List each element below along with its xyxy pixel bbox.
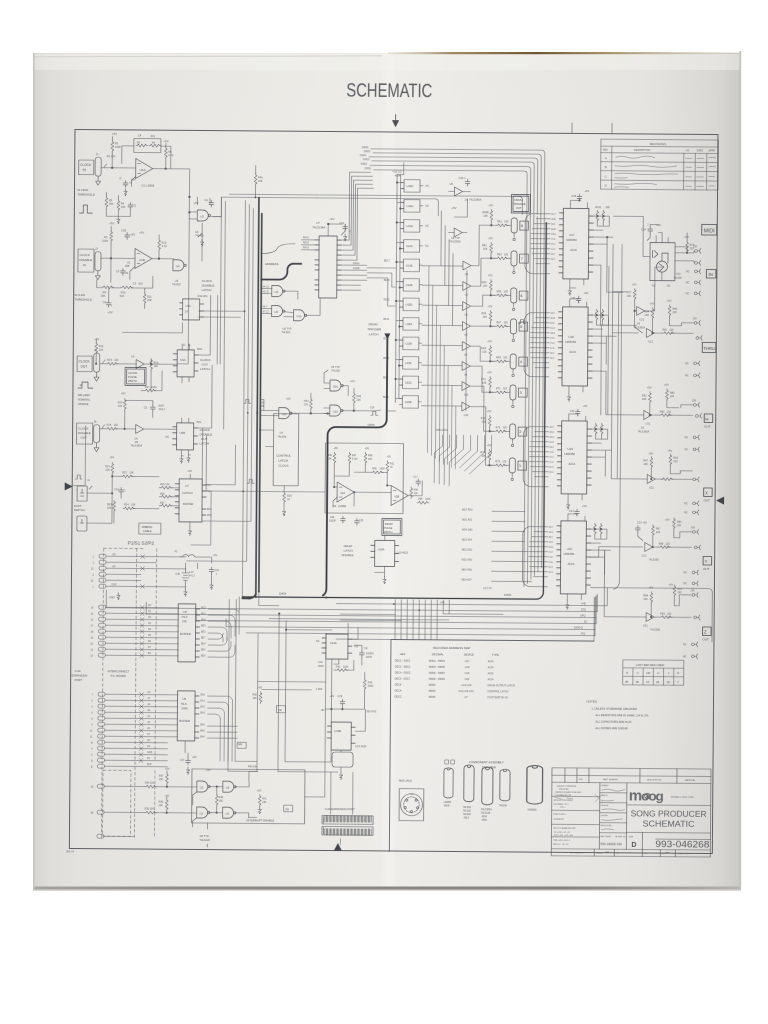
svg-text:U15D: U15D: [406, 303, 413, 307]
wire: pair from gate U2 to right bus: [211, 194, 522, 219]
svg-text:P/N: P/N: [579, 779, 583, 781]
svg-text:U21: U21: [649, 487, 654, 490]
svg-text:R1: R1: [115, 141, 119, 145]
bus bracket U19: [523, 427, 548, 487]
svg-text:100: 100: [503, 321, 508, 324]
svg-text:R56: R56: [418, 498, 423, 501]
svg-text:MODEL NO: MODEL NO: [615, 836, 626, 838]
svg-text:U: U: [657, 671, 659, 675]
svg-text:U15B: U15B: [405, 400, 412, 404]
svg-text:+5V: +5V: [487, 370, 492, 374]
svg-text:+5V: +5V: [258, 686, 263, 689]
svg-text:10K: 10K: [656, 531, 661, 534]
svg-text:+5V: +5V: [165, 795, 170, 798]
svg-text:NC: NC: [685, 362, 689, 365]
svg-text:BA5: BA5: [200, 730, 205, 733]
svg-text:CR: CR: [646, 671, 650, 675]
svg-text:74LS365: 74LS365: [649, 559, 660, 562]
svg-text:1/6 TYP: 1/6 TYP: [199, 834, 209, 838]
svg-text:A6 7: A6 7: [263, 305, 268, 308]
wire: control latch clock feed: [260, 430, 274, 447]
svg-text:IN 9.201: IN 9.201: [75, 293, 86, 297]
svg-text:4013: 4013: [464, 817, 470, 820]
svg-text:R18: R18: [107, 424, 112, 427]
svg-text:100: 100: [504, 253, 509, 256]
svg-text:R50: R50: [372, 467, 377, 470]
svg-text:U12 1/2: U12 1/2: [393, 169, 403, 173]
svg-text:CLOCK: CLOCK: [278, 464, 288, 468]
svg-text:MATERIAL: MATERIAL: [685, 779, 696, 782]
wire: extra input network R3 C2: [105, 196, 108, 208]
svg-text:U13B: U13B: [334, 729, 341, 733]
clock pulse width box: [125, 367, 146, 385]
drum trigger latch column U14 x12: [399, 180, 423, 409]
svg-text:D: D: [631, 842, 636, 849]
svg-text:MD3 AD4: MD3 AD4: [462, 539, 473, 542]
svg-text:WIDTH: WIDTH: [384, 530, 393, 534]
svg-text:C8: C8: [103, 300, 107, 304]
svg-text:74LS365A: 74LS365A: [130, 444, 142, 447]
svg-text:C22 J: C22 J: [459, 176, 467, 180]
svg-text:LATCH: LATCH: [200, 441, 210, 445]
svg-text:BD2: BD2: [201, 608, 206, 610]
svg-text:22K: 22K: [356, 399, 361, 402]
svg-text:DATE: DATE: [697, 149, 704, 152]
opamp V2a: [337, 482, 354, 502]
svg-text:U20: U20: [567, 547, 573, 551]
extra bottom-left pins: [97, 834, 104, 838]
svg-text:EXPANSION: EXPANSION: [72, 673, 88, 677]
interrupt gates: [197, 781, 210, 792]
GND sym below pins: [116, 592, 120, 599]
svg-text:R2 10K: R2 10K: [107, 154, 116, 158]
svg-text:C10: C10: [114, 488, 119, 491]
svg-text:+5V: +5V: [648, 586, 653, 590]
svg-text:DRD3: DRD3: [363, 158, 370, 161]
drum audio section box: [325, 443, 404, 514]
svg-text:220: 220: [666, 543, 671, 546]
svg-text:10K: 10K: [483, 285, 488, 288]
svg-text:22K: 22K: [304, 403, 309, 406]
wire: left column feed lines: [73, 258, 213, 545]
op-amp U1B: [135, 248, 152, 268]
svg-text:LATCH: LATCH: [202, 288, 212, 292]
svg-text:NC: NC: [684, 502, 688, 505]
revisions table: [601, 139, 719, 190]
resistors R44 R45: [309, 398, 312, 410]
svg-text:SURFACES: SURFACES: [554, 818, 565, 821]
svg-text:+5V: +5V: [667, 299, 672, 303]
svg-text:BD15: BD15: [384, 299, 390, 301]
thick address bus: [261, 263, 301, 279]
drum pulse width box: [382, 518, 402, 535]
svg-text:C17: C17: [180, 759, 185, 762]
svg-text:10K: 10K: [253, 697, 258, 700]
svg-text:10K: 10K: [121, 206, 126, 209]
svg-text:ACIA: ACIA: [488, 660, 494, 663]
svg-text:+5V: +5V: [488, 203, 493, 207]
svg-text:DE: DE: [278, 709, 282, 712]
svg-text:WIDTH: WIDTH: [128, 379, 137, 383]
svg-text:74LS365A: 74LS365A: [638, 430, 650, 433]
wire: clock disable out row: [100, 425, 177, 430]
moog logo: [629, 788, 664, 804]
pulse glyph foot switch: [75, 475, 82, 479]
resistor R13: [158, 239, 161, 251]
svg-text:M: M: [705, 416, 708, 421]
wire: center bottom mesh: [257, 591, 366, 772]
svg-text:100: 100: [114, 359, 119, 362]
IN label box: [706, 269, 716, 278]
svg-text:U1B: U1B: [139, 258, 145, 262]
svg-text:SONG PRODUCER: SONG PRODUCER: [631, 809, 707, 819]
svg-text:+5V: +5V: [213, 553, 218, 557]
svg-text:+5V: +5V: [112, 566, 117, 568]
wire: clock out row: [95, 339, 177, 365]
svg-text:10K: 10K: [154, 365, 159, 368]
svg-text:U16: U16: [464, 394, 469, 397]
svg-text:500KHZ: 500KHZ: [574, 626, 583, 629]
svg-text:D0D: D0D: [549, 462, 554, 464]
svg-text:U18: U18: [568, 335, 574, 339]
svg-text:R88: R88: [659, 543, 664, 546]
svg-text:R12 401: R12 401: [198, 294, 208, 298]
svg-text:POLY: POLY: [159, 408, 166, 411]
svg-text:74LS366: 74LS366: [650, 629, 661, 632]
svg-text:74LS08: 74LS08: [331, 370, 340, 373]
svg-text:51K: 51K: [120, 294, 125, 298]
middle column scribbles: [601, 784, 613, 827]
svg-text:MD6 PD6: MD6 PD6: [462, 569, 473, 572]
svg-text:DESCRIPTION: DESCRIPTION: [647, 779, 662, 781]
svg-text:DRD4: DRD4: [360, 154, 367, 157]
svg-text:56834 - 56835: 56834 - 56835: [429, 666, 446, 669]
svg-text:ACIA: ACIA: [570, 248, 577, 252]
svg-text:C30: C30: [571, 297, 576, 300]
svg-text:C18: C18: [121, 228, 126, 232]
svg-text:BD3: BD3: [201, 632, 206, 634]
svg-text:NC: NC: [684, 511, 688, 514]
svg-text:CLOCK: CLOCK: [79, 253, 89, 257]
svg-text:+5V: +5V: [187, 469, 192, 473]
svg-text:C: C: [637, 671, 639, 675]
svg-text:100: 100: [504, 220, 509, 223]
svg-text:DEC6 - DEC7: DEC6 - DEC7: [395, 678, 411, 681]
svg-text:+5V: +5V: [257, 789, 262, 792]
svg-text:HD6350: HD6350: [528, 809, 537, 812]
svg-text:MD0 AD7: MD0 AD7: [461, 579, 472, 582]
svg-text:BA12: BA12: [303, 241, 310, 244]
svg-text:+5V: +5V: [386, 455, 391, 458]
resistor R18: [106, 427, 118, 430]
svg-text:R75: R75: [495, 460, 500, 463]
svg-text:C4: C4: [138, 133, 142, 137]
svg-text:R11: R11: [147, 295, 152, 299]
svg-text:ALL DIODES ARE 1N914B: ALL DIODES ARE 1N914B: [595, 726, 628, 730]
buffer enable verticals: [466, 271, 467, 411]
svg-text:CLOCK: CLOCK: [78, 427, 88, 431]
svg-text:DRD2: DRD2: [361, 163, 368, 166]
svg-text:20K: 20K: [101, 294, 106, 298]
last ref des used table: [623, 660, 684, 685]
resistors R9 R10 row: [102, 286, 114, 289]
svg-text:ALL RESISTORS ARE IN OHMS, 1/4: ALL RESISTORS ARE IN OHMS, 1/4 W, 5%: [595, 713, 649, 717]
thick data bus S-path center: [242, 220, 546, 600]
svg-text:APPR: APPR: [708, 150, 715, 153]
wire: clock in to opamp and output: [100, 136, 190, 259]
svg-text:CHECK: CHECK: [601, 795, 609, 797]
svg-text:993-046268: 993-046268: [655, 839, 709, 849]
svg-text:NC: NC: [425, 225, 429, 228]
svg-text:ACIA: ACIA: [569, 350, 576, 354]
svg-text:CLK: CLK: [370, 406, 375, 409]
svg-text:NC: NC: [684, 448, 688, 451]
svg-text:100: 100: [502, 460, 507, 463]
c64 port pins group 2: [90, 605, 178, 659]
svg-text:R67: R67: [496, 321, 501, 324]
svg-text:R7: R7: [104, 235, 108, 239]
svg-text:.001: .001: [150, 134, 156, 138]
wire: latch to fan verticals: [427, 266, 457, 469]
svg-text:1.4HZ: 1.4HZ: [316, 688, 323, 691]
svg-text:56836 - 56837: 56836 - 56837: [429, 672, 446, 675]
wire: U10 wiring: [310, 370, 396, 415]
svg-text:THRESHOLD: THRESHOLD: [75, 298, 92, 302]
svg-text:R9: R9: [103, 290, 107, 294]
opamp V2b: [391, 485, 408, 505]
svg-text:IRQ: IRQ: [581, 632, 585, 635]
interrupt enable section bottom left: [102, 770, 155, 836]
svg-text:TRIGGER: TRIGGER: [367, 327, 382, 331]
ribbon cable box: [139, 523, 161, 534]
svg-text:BD5: BD5: [201, 626, 206, 628]
svg-text:+5V: +5V: [94, 337, 99, 341]
svg-text:ADV: ADV: [550, 426, 555, 429]
svg-text:MD3: MD3: [550, 432, 555, 434]
svg-text:BA0: BA0: [201, 694, 206, 697]
svg-text:220: 220: [645, 314, 650, 317]
svg-text:4.7K: 4.7K: [168, 153, 174, 157]
svg-text:U6A: U6A: [180, 358, 186, 362]
wire: clock disable latch to thick bus: [122, 310, 244, 364]
resistor R40 22K top: [254, 173, 257, 185]
R42 100K: [336, 669, 348, 672]
cap above U18: [576, 296, 581, 303]
svg-text:BD7: BD7: [201, 638, 206, 640]
svg-text:U4: U4: [176, 264, 180, 268]
op-amp U1A: [136, 158, 153, 178]
svg-text:74LS: 74LS: [181, 615, 188, 619]
wire: foot switch mesh: [87, 474, 159, 524]
buffer triangles U6 column: [463, 261, 471, 270]
svg-text:NC: NC: [652, 284, 656, 288]
registration arrow right edge (pointing left): [716, 497, 724, 505]
svg-text:10K: 10K: [327, 457, 332, 460]
svg-text:OUT: OUT: [704, 424, 711, 428]
svg-text:C29: C29: [571, 195, 576, 198]
wire: long horizontals bottom center: [106, 584, 712, 642]
svg-text:U21: U21: [642, 554, 647, 557]
svg-text:D0D: D0D: [551, 249, 556, 251]
svg-text:SPECIFIED: SPECIFIED: [559, 789, 570, 791]
svg-text:100: 100: [114, 424, 119, 427]
dashed interconnect verticals: [101, 548, 156, 838]
svg-text:R65: R65: [497, 290, 502, 293]
svg-text:UNLESS OTHERWISE: UNLESS OTHERWISE: [557, 786, 577, 788]
svg-text:DRUM: DRUM: [344, 544, 353, 548]
svg-text:TYPE: TYPE: [492, 653, 499, 657]
wire: opto to jacks: [613, 216, 695, 281]
svg-text:HD6350: HD6350: [564, 452, 575, 456]
svg-text:U11: U11: [282, 412, 287, 416]
U19 right components: [594, 423, 597, 435]
svg-text:SHEET 1 OF 1: SHEET 1 OF 1: [677, 853, 691, 855]
paper top edge smudge brown: [388, 52, 740, 54]
svg-text:DECODED ADDRESS MAP: DECODED ADDRESS MAP: [433, 646, 471, 650]
svg-text:NC: NC: [425, 245, 429, 248]
svg-text:U15H: U15H: [405, 342, 412, 346]
U17 right components: [596, 210, 599, 222]
svg-text:B: B: [605, 165, 607, 169]
svg-text:DISABLE: DISABLE: [342, 553, 354, 557]
svg-text:2C: 2C: [91, 787, 94, 789]
big notes box: [389, 639, 594, 853]
svg-text:10K: 10K: [482, 351, 487, 354]
svg-text:220: 220: [673, 311, 678, 314]
svg-text:DATA: DATA: [279, 592, 286, 596]
svg-text:X: X: [705, 490, 708, 495]
svg-text:BA11: BA11: [303, 236, 309, 239]
buffer clock disable out: [136, 424, 144, 433]
svg-text:10K: 10K: [643, 463, 648, 466]
svg-text:BA2: BA2: [200, 706, 205, 709]
svg-text:20K: 20K: [159, 804, 164, 807]
svg-text:NC: NC: [425, 205, 429, 208]
svg-text:+5V: +5V: [286, 397, 291, 401]
svg-text:R42: R42: [336, 666, 341, 669]
svg-text:+5V: +5V: [583, 404, 588, 408]
svg-text:CONTROL LATCH: CONTROL LATCH: [488, 690, 509, 693]
wire: gate input stubs: [261, 288, 321, 316]
registration arrow left edge (pointing right): [65, 482, 73, 490]
svg-text:NC: NC: [686, 292, 690, 295]
svg-text:I/O: I/O: [147, 758, 150, 760]
paper fold light band: [381, 53, 397, 889]
gates U10 pair mid: [330, 380, 343, 391]
bus bracket U17: [525, 214, 550, 274]
svg-text:DE: DE: [286, 808, 290, 811]
svg-text:220: 220: [677, 591, 682, 594]
svg-text:RIBBON: RIBBON: [142, 525, 152, 529]
svg-text:IN: IN: [708, 272, 713, 277]
wire: top data bus bundle horizontals: [368, 149, 545, 217]
svg-text:J20: J20: [693, 245, 698, 248]
svg-text:ACIA: ACIA: [568, 462, 575, 466]
svg-text:DEVICE: DEVICE: [464, 653, 474, 657]
svg-text:U5: U5: [275, 310, 279, 314]
svg-text:ACIA: ACIA: [488, 678, 494, 681]
svg-text:100K: 100K: [343, 666, 349, 669]
wire: U7 outputs to top bus / latches: [341, 172, 374, 290]
svg-text:50912 - 56833: 50912 - 56833: [429, 660, 446, 663]
svg-text:GND: GND: [147, 752, 152, 754]
registration arrow top (pointing down): [393, 114, 399, 126]
Y OUT label box: [703, 556, 712, 565]
svg-text:NC: NC: [316, 640, 320, 643]
svg-text:LM358: LM358: [338, 504, 347, 508]
svg-text:U18: U18: [465, 666, 470, 669]
svg-text:20K: 20K: [147, 298, 152, 302]
svg-text:.XX ±.030 +.01 -.01: .XX ±.030 +.01 -.01: [553, 832, 569, 834]
svg-text:R101: R101: [595, 206, 602, 209]
R43 200K: [363, 678, 366, 690]
junction dot thick bus: [256, 412, 258, 414]
ACIA U18: [558, 307, 593, 386]
svg-text:10K: 10K: [262, 801, 267, 804]
svg-text:J18: J18: [692, 399, 697, 402]
svg-text:PORT: PORT: [75, 678, 83, 682]
svg-text:4.7K: 4.7K: [162, 244, 168, 248]
svg-text:LATCH: LATCH: [344, 549, 353, 553]
svg-text:DECC: DECC: [395, 696, 402, 699]
svg-text:R73: R73: [496, 426, 501, 429]
svg-text:MIDI JACK: MIDI JACK: [399, 779, 413, 783]
svg-text:BD7: BD7: [207, 508, 212, 511]
svg-text:CONTROL: CONTROL: [276, 454, 291, 458]
svg-text:MD2 DD2: MD2 DD2: [462, 549, 473, 552]
svg-text:A4B: A4B: [440, 601, 445, 604]
svg-text:NC: NC: [667, 284, 671, 288]
svg-text:95: 95: [625, 680, 629, 684]
svg-text:500 KHZ: 500 KHZ: [366, 710, 376, 713]
svg-text:BUFFER: BUFFER: [179, 719, 190, 723]
svg-text:100K: 100K: [115, 145, 121, 149]
svg-text:NC: NC: [684, 571, 688, 574]
svg-text:+5V: +5V: [684, 235, 689, 239]
svg-text:NC: NC: [683, 582, 687, 585]
U13B flip flop lower: [327, 722, 355, 750]
svg-text:DECIMALS .XX ±: DECIMALS .XX ±: [554, 803, 569, 806]
U20 right components: [593, 523, 596, 535]
c64 port pins group 1: [91, 554, 186, 589]
svg-text:+5V: +5V: [364, 447, 369, 450]
svg-text:+5V: +5V: [487, 443, 492, 447]
svg-text:U19: U19: [465, 672, 470, 675]
wire: clock disable to gate: [101, 226, 174, 283]
pulse glyph near control latch: [247, 479, 254, 483]
bottom strip labels: [570, 851, 691, 855]
svg-text:I/O TYP: I/O TYP: [483, 587, 492, 590]
thick vertical bus left-center: [256, 197, 262, 594]
interrupt wires: [104, 770, 257, 827]
svg-text:BA6: BA6: [200, 736, 205, 739]
svg-text:74LS02: 74LS02: [172, 282, 182, 286]
svg-text:U10A: U10A: [378, 547, 385, 551]
bus bracket U18: [524, 313, 550, 377]
junction dots scattered: [241, 310, 422, 611]
X OUT label box: [704, 488, 713, 497]
svg-text:NOTES:: NOTES:: [586, 700, 597, 704]
svg-text:MR: MR: [238, 742, 242, 746]
wire: latch input labels left: [383, 260, 391, 399]
svg-text:U14E: U14E: [406, 264, 413, 268]
svg-text:C3: C3: [133, 281, 137, 285]
U7 footswitch buffer resistors: [160, 486, 172, 489]
svg-text:DECIMAL: DECIMAL: [432, 652, 444, 656]
svg-text:5.1M: 5.1M: [352, 458, 357, 461]
paper right edge: [739, 51, 741, 889]
svg-text:BD17: BD17: [384, 260, 390, 262]
